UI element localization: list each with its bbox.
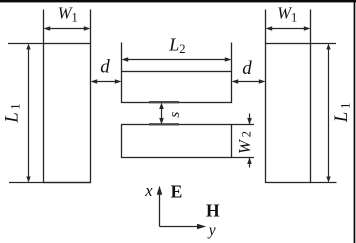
- upper center strip L2 (rectangle): [122, 72, 232, 103]
- svg-text:y: y: [207, 222, 216, 239]
- L1 right top extension line: [311, 43, 337, 45]
- y axis (horizontal arrow): [160, 226, 204, 228]
- W1 right extension lines: [265, 10, 267, 44]
- L1 right bottom extension line: [311, 182, 337, 184]
- svg-text:E: E: [171, 181, 183, 201]
- L1 left bottom extension line: [9, 182, 91, 184]
- W2 lower outside arrow: [249, 158, 251, 168]
- W2 extension lines: [232, 124, 255, 126]
- left parasitic strip (rectangle): [44, 44, 91, 183]
- L2 dimension arrow: [124, 59, 229, 61]
- L1 left top extension line: [8, 43, 44, 45]
- svg-text:x: x: [144, 181, 153, 200]
- svg-text:H: H: [206, 201, 220, 221]
- W1 left extension lines: [43, 10, 45, 44]
- top border frame line: [0, 0, 356, 2]
- right border frame line: [354, 0, 356, 243]
- W1 left dimension arrow: [46, 28, 88, 30]
- d right dimension arrow: [234, 81, 263, 83]
- svg-text:s: s: [167, 112, 183, 118]
- L1 left dimension arrow: [28, 46, 30, 180]
- thick grey feed segment lower: [149, 123, 179, 125]
- d left dimension arrow: [93, 81, 119, 83]
- lower center strip W2 (rectangle): [122, 125, 232, 158]
- svg-text:d: d: [100, 56, 110, 77]
- x axis (vertical arrow): [159, 189, 161, 227]
- right parasitic strip (rectangle): [266, 44, 311, 183]
- W2 upper outside arrow: [249, 114, 251, 125]
- s dimension arrow: [161, 105, 163, 122]
- thick grey feed segment upper: [149, 101, 179, 103]
- L2 extension lines: [121, 43, 123, 72]
- L1 right dimension arrow: [328, 46, 330, 180]
- coordinate axes: [157, 186, 207, 230]
- svg-text:d: d: [242, 58, 252, 79]
- W1 right dimension arrow: [268, 28, 308, 30]
